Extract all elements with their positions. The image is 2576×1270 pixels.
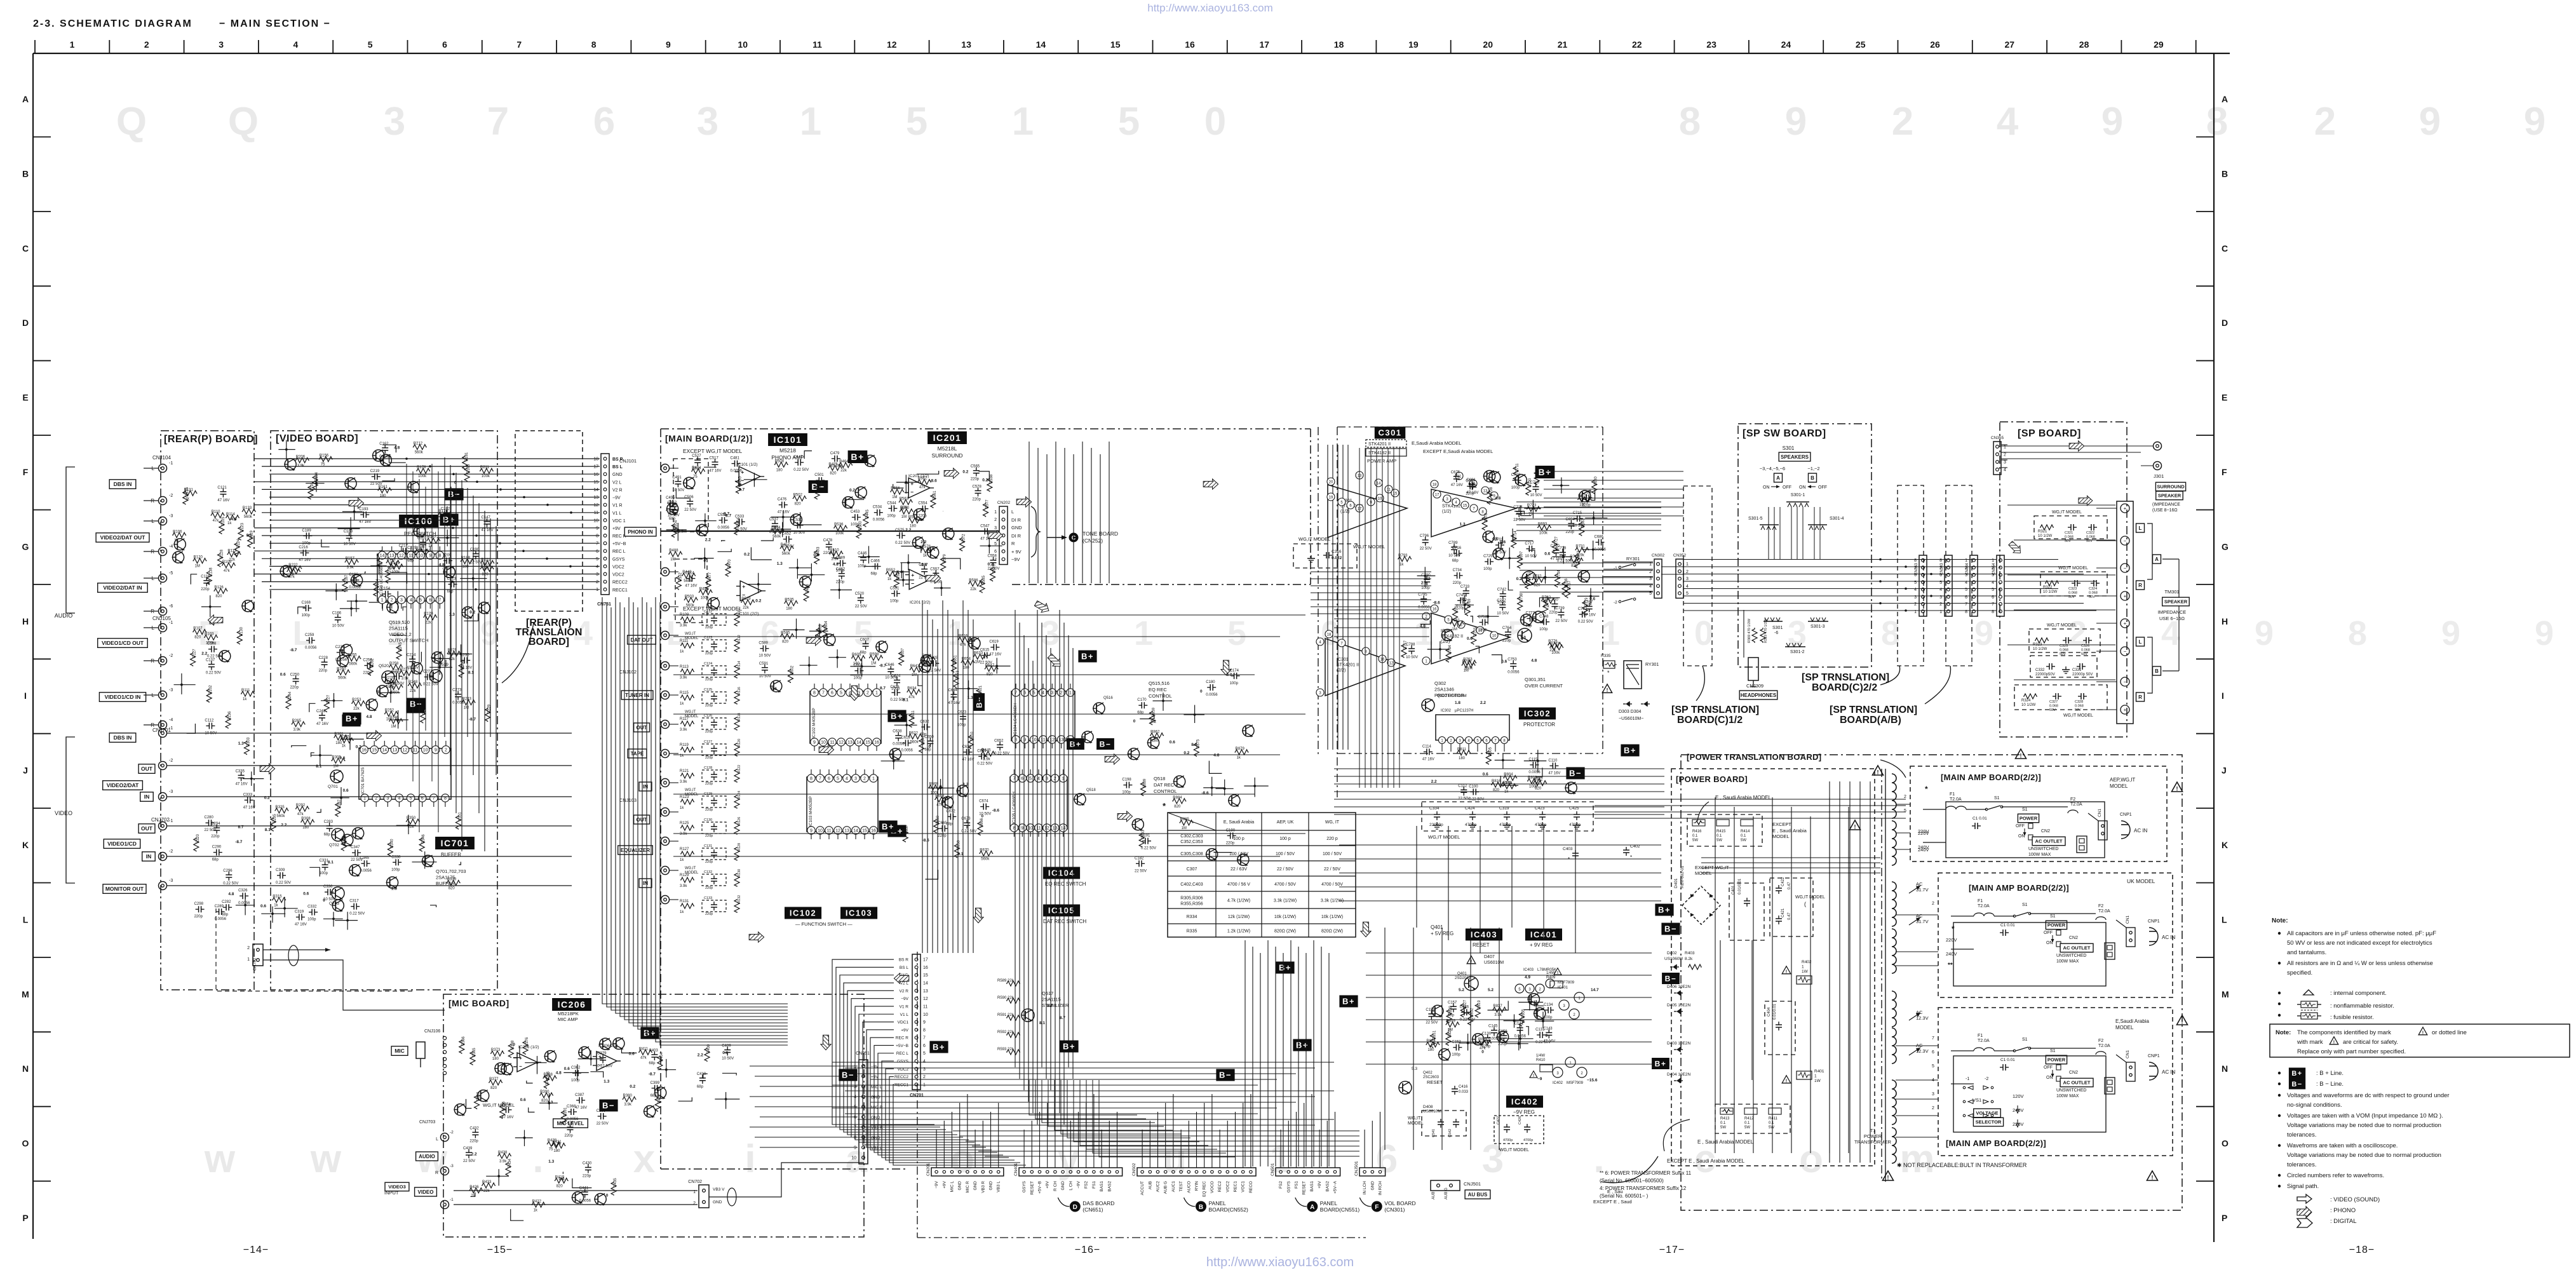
wire <box>445 660 447 666</box>
B- label eq rotated <box>973 693 985 711</box>
svg-text:4: 4 <box>1042 691 1044 696</box>
svg-text:17: 17 <box>593 465 598 469</box>
svg-text:IC103: IC103 <box>846 909 872 918</box>
B+ label protector <box>1621 745 1639 757</box>
svg-text:RECC2: RECC2 <box>612 581 628 585</box>
svg-text:C174: C174 <box>1230 669 1239 673</box>
diode D405 10E2N <box>1676 1009 1680 1014</box>
svg-text:1.2k (1/2W): 1.2k (1/2W) <box>1227 929 1250 934</box>
svg-text:12: 12 <box>593 503 598 508</box>
wire <box>1521 505 1532 515</box>
ground cap bank power amp <box>1422 802 1593 831</box>
svg-text:R252: R252 <box>385 709 394 713</box>
svg-text:C331: C331 <box>2072 668 2082 672</box>
svg-text:VIDEO2/DAT OUT: VIDEO2/DAT OUT <box>100 534 145 541</box>
svg-text:R837: R837 <box>1493 1004 1502 1008</box>
svg-text:18: 18 <box>1433 483 1437 487</box>
svg-text:R428: R428 <box>548 1139 557 1143</box>
transistor Q555 <box>387 877 398 888</box>
resistor R762 <box>1541 598 1555 604</box>
connector CN201 <box>931 1168 1004 1176</box>
resistor R401 <box>655 1098 660 1112</box>
svg-text:−9V: −9V <box>1011 557 1020 562</box>
capacitor C234 <box>412 656 413 659</box>
svg-text:220p: 220p <box>938 834 947 838</box>
mid wires to amp <box>1311 571 1431 572</box>
junction <box>349 527 352 530</box>
resistor R641 <box>919 739 924 753</box>
svg-text:24: 24 <box>1781 39 1791 50</box>
svg-text:7: 7 <box>994 558 997 562</box>
svg-text:R666: R666 <box>980 818 984 827</box>
svg-text:V2 L: V2 L <box>900 982 909 986</box>
svg-text:10: 10 <box>923 1013 928 1017</box>
svg-text:R350: R350 <box>407 816 416 820</box>
svg-text:100k: 100k <box>386 686 395 689</box>
transistor Q579 <box>1243 725 1254 736</box>
svg-text:-4: -4 <box>169 544 173 549</box>
svg-text:22 50V: 22 50V <box>597 1122 609 1126</box>
junction <box>905 481 907 483</box>
svg-text:!: ! <box>1607 687 1608 693</box>
svg-text:+: + <box>2124 593 2127 599</box>
svg-text:C302,C303: C302,C303 <box>1180 834 1203 839</box>
svg-text:R586: R586 <box>969 579 978 583</box>
svg-text:REC L: REC L <box>612 550 626 554</box>
capacitor C399 <box>652 1088 655 1089</box>
transistor Q544 <box>345 478 356 489</box>
svg-text:C273: C273 <box>452 689 462 692</box>
capacitor C115 <box>1530 764 1533 766</box>
svg-text:CONTROL: CONTROL <box>1149 693 1172 699</box>
svg-text:R127: R127 <box>680 848 689 851</box>
svg-text:100k: 100k <box>701 596 710 600</box>
svg-text:100 / 50V: 100 / 50V <box>1276 852 1295 856</box>
svg-text:C145: C145 <box>1488 1025 1498 1029</box>
resistor R839 <box>1446 1010 1452 1023</box>
svg-text:R426: R426 <box>469 1186 479 1189</box>
svg-text:VIDEO3: VIDEO3 <box>388 1184 406 1190</box>
resistor R398 <box>508 1044 513 1058</box>
svg-text:R129: R129 <box>680 874 689 877</box>
svg-text:y: y <box>1058 1137 1080 1181</box>
svg-text:R563: R563 <box>900 497 909 501</box>
capacitor C162 <box>384 445 386 448</box>
svg-text:BOARD(C)2/2: BOARD(C)2/2 <box>1812 682 1877 693</box>
svg-text:1.3: 1.3 <box>777 562 783 566</box>
svg-text:R438: R438 <box>498 1151 508 1154</box>
svg-text:C158: C158 <box>1426 1008 1435 1012</box>
svg-text:8.1: 8.1 <box>328 860 334 865</box>
Q520 transistor <box>429 670 442 682</box>
capacitor C219 <box>372 476 375 477</box>
B+ label eq2 <box>1067 738 1084 750</box>
svg-text:22 50V: 22 50V <box>1458 797 1470 801</box>
wire <box>864 565 877 566</box>
svg-text:5: 5 <box>368 39 373 50</box>
upper main vertical bundle <box>1028 442 1030 583</box>
svg-text:8.7: 8.7 <box>1047 1004 1053 1008</box>
junction <box>315 482 318 485</box>
svg-text:C352,C353: C352,C353 <box>1180 840 1203 844</box>
resistor R738 <box>1518 597 1523 611</box>
svg-text:GND: GND <box>1370 1181 1375 1191</box>
rca jack DBS IN L <box>159 464 167 473</box>
transistor Q572 <box>842 497 854 508</box>
rca jack video -1 <box>159 729 167 738</box>
wire <box>722 1073 736 1075</box>
svg-text:0.0056: 0.0056 <box>452 701 464 705</box>
svg-text:8.1: 8.1 <box>246 534 252 538</box>
transistor Q594 <box>1206 849 1218 860</box>
B+ label IC103 <box>887 825 906 837</box>
capacitor C506 <box>689 498 691 501</box>
connector CN501 <box>1276 1168 1340 1176</box>
svg-text:CN201: CN201 <box>926 1163 931 1176</box>
resistor ladder row 1 <box>680 643 694 648</box>
resistor R373 <box>490 1051 504 1056</box>
svg-text:18: 18 <box>593 457 598 462</box>
svg-text:A: A <box>2222 94 2228 104</box>
svg-text:MIC R: MIC R <box>966 1181 970 1193</box>
transistor Q544 <box>353 828 364 839</box>
capacitor C296 <box>228 872 229 875</box>
svg-text:28: 28 <box>2079 39 2089 50</box>
svg-text:+9V: +9V <box>942 1180 947 1188</box>
capacitor C217 <box>400 550 403 551</box>
svg-text:C565: C565 <box>971 465 980 469</box>
svg-text:C544: C544 <box>887 501 896 505</box>
svg-text:100p: 100p <box>1230 682 1239 686</box>
svg-text:V1 L: V1 L <box>900 1013 909 1017</box>
resistor R485 <box>736 480 741 494</box>
resistor R135 <box>183 490 188 504</box>
svg-text:8: 8 <box>438 554 441 558</box>
diode D404 10E2N <box>1676 1078 1680 1083</box>
svg-text:WG,IT MODEL: WG,IT MODEL <box>2047 623 2077 628</box>
svg-text:http://www.xiaoyu163.com: http://www.xiaoyu163.com <box>1147 2 1272 14</box>
svg-text:100k: 100k <box>418 475 427 478</box>
svg-text:(: ( <box>1804 901 1806 907</box>
svg-text:0.2: 0.2 <box>744 553 750 557</box>
svg-text:R723: R723 <box>1527 504 1537 508</box>
svg-text:47 16V: 47 16V <box>575 1106 587 1110</box>
svg-text:100 p: 100 p <box>1233 837 1244 841</box>
svg-text:50V: 50V <box>2049 708 2056 712</box>
svg-text:0.0056: 0.0056 <box>1488 1037 1500 1041</box>
junction <box>1589 595 1592 598</box>
svg-text:D403 10E2N: D403 10E2N <box>1667 1041 1691 1046</box>
svg-text:0.6: 0.6 <box>559 1177 565 1181</box>
transformer winding <box>1892 1080 1896 1125</box>
svg-text:CN353: CN353 <box>1915 563 1919 575</box>
svg-text:RYIN: RYIN <box>1195 1181 1199 1191</box>
svg-text:T2.0A: T2.0A <box>2070 802 2082 807</box>
resistor R253 <box>351 701 365 706</box>
resistor R422 <box>532 1202 546 1207</box>
board MAIN BOARD notch <box>1012 584 1311 585</box>
junction <box>424 861 426 863</box>
svg-text:3: 3 <box>219 39 224 50</box>
svg-text:0.6: 0.6 <box>1544 552 1550 557</box>
svg-text:1k: 1k <box>1504 790 1509 794</box>
capacitor C446 <box>863 555 864 558</box>
capacitor C198 <box>1123 785 1126 786</box>
capacitor C190 <box>475 551 476 554</box>
svg-text:+: + <box>910 480 914 487</box>
junction <box>725 1098 727 1100</box>
svg-text:− MAIN SECTION −: − MAIN SECTION − <box>219 18 331 29</box>
svg-text:R411: R411 <box>639 1047 649 1051</box>
svg-text:C632: C632 <box>920 720 929 724</box>
svg-text:47 16V: 47 16V <box>1466 491 1478 495</box>
wire <box>718 549 732 552</box>
svg-text:!: ! <box>1533 1074 1534 1078</box>
svg-text:(USE 8−16Ω: (USE 8−16Ω <box>2152 508 2178 513</box>
svg-text:IC201: IC201 <box>933 433 962 443</box>
svg-text:SPEAKER: SPEAKER <box>2158 493 2182 499</box>
resistor R414 <box>1741 820 1753 826</box>
svg-text:1M: 1M <box>1182 827 1187 830</box>
wire <box>421 652 422 662</box>
svg-text:-3: -3 <box>169 514 173 518</box>
svg-text:R: R <box>2138 694 2142 700</box>
wire <box>382 478 395 481</box>
svg-text:R590 22k: R590 22k <box>997 996 1015 1000</box>
transistor Q500 <box>684 477 695 489</box>
resistor R670 <box>979 851 993 856</box>
resistor R243 <box>461 700 475 705</box>
junction <box>1211 787 1213 789</box>
bus vertical stubs video board <box>444 457 445 737</box>
wire <box>800 512 822 525</box>
resistor R690 <box>1534 471 1539 485</box>
svg-text:VIDEO1/CD OUT: VIDEO1/CD OUT <box>102 640 144 646</box>
video input group bracket <box>66 737 75 883</box>
svg-text:R340: R340 <box>390 839 394 848</box>
svg-text:R131: R131 <box>680 900 689 903</box>
svg-text:4: 4 <box>1686 584 1689 589</box>
svg-text:IC701: IC701 <box>441 838 469 848</box>
resistor ladder row 3 <box>680 695 694 700</box>
resistor R803 <box>1527 778 1541 783</box>
svg-text:V2 R: V2 R <box>900 989 909 994</box>
svg-text:CNJ101: CNJ101 <box>619 458 637 464</box>
svg-text:9: 9 <box>2255 614 2274 652</box>
junction <box>1532 507 1535 510</box>
resistor R275 <box>447 651 461 656</box>
svg-text:R258: R258 <box>389 662 399 666</box>
svg-text:R124: R124 <box>738 791 741 799</box>
svg-text:INPUT: INPUT <box>384 1190 399 1196</box>
svg-text:DBS IN: DBS IN <box>114 734 132 741</box>
svg-text:Q302 US6010M: Q302 US6010M <box>1437 694 1467 698</box>
svg-text:MIC: MIC <box>394 1048 405 1054</box>
svg-text:6: 6 <box>831 691 833 696</box>
dashed board strip 3 <box>1946 485 1972 666</box>
svg-text:R243: R243 <box>462 698 472 701</box>
svg-text:47 16V: 47 16V <box>482 529 494 532</box>
resistor R346 <box>419 838 424 852</box>
svg-text:180: 180 <box>492 1057 499 1061</box>
svg-text:R410: R410 <box>1536 1058 1546 1062</box>
svg-text:US1060M: US1060M <box>1664 957 1683 961</box>
svg-text:3.9k: 3.9k <box>293 728 301 732</box>
svg-text:R731: R731 <box>1575 545 1585 549</box>
svg-text:-8.6: -8.6 <box>992 808 1000 813</box>
svg-text:R105: R105 <box>222 517 226 526</box>
left border <box>32 53 34 1239</box>
label DAT OUT <box>628 635 656 644</box>
svg-text:BOARD]: BOARD] <box>529 637 569 647</box>
resistor R879 <box>1235 750 1249 755</box>
signal arrow <box>806 635 821 645</box>
capacitor C110 <box>1549 765 1553 766</box>
svg-text:R434: R434 <box>508 1158 512 1168</box>
svg-text:C646: C646 <box>885 663 894 667</box>
svg-text:R552: R552 <box>886 569 896 572</box>
transistor Q572 <box>351 574 363 586</box>
winding arrows <box>1909 886 1920 893</box>
svg-text:C739: C739 <box>1555 607 1565 611</box>
leader curves sp translation <box>1696 666 1704 701</box>
svg-text:4.7k (1/2W): 4.7k (1/2W) <box>1227 899 1250 903</box>
svg-text:180: 180 <box>335 741 342 745</box>
svg-text:IC402: IC402 <box>1553 1081 1563 1085</box>
svg-text:[MAIN AMP BOARD(2/2)]: [MAIN AMP BOARD(2/2)] <box>1969 883 2069 893</box>
capacitor C190 <box>1227 835 1231 836</box>
IC102 IC103 chip labels <box>785 907 821 919</box>
svg-text:R658: R658 <box>957 840 961 849</box>
svg-text:(1/2): (1/2) <box>1442 510 1451 514</box>
svg-text:4.8: 4.8 <box>228 892 234 896</box>
wire <box>845 499 864 506</box>
svg-text:2SD2012: 2SD2012 <box>1455 976 1471 980</box>
resistor R404 <box>657 1056 663 1070</box>
svg-text:D406 10E2N: D406 10E2N <box>1667 985 1691 989</box>
note line <box>2278 1114 2281 1117</box>
svg-text:R693: R693 <box>1538 522 1548 526</box>
svg-text:68p: 68p <box>212 858 219 862</box>
svg-text:1/4W: 1/4W <box>1546 971 1555 975</box>
svg-text:R110: R110 <box>738 609 741 617</box>
capacitor C213 <box>448 584 452 585</box>
speaker terminal strip <box>2117 501 2133 724</box>
svg-text:M5218: M5218 <box>779 447 796 454</box>
svg-text:CN202: CN202 <box>997 501 1011 505</box>
svg-text:(1/2): (1/2) <box>1340 510 1349 514</box>
svg-text:4.8: 4.8 <box>367 715 372 719</box>
wire <box>1514 511 1525 515</box>
svg-text:C1 0.01: C1 0.01 <box>1972 816 1987 821</box>
svg-text:CN352: CN352 <box>1673 553 1687 558</box>
svg-text:VOL BOARD: VOL BOARD <box>1384 1200 1415 1206</box>
svg-text:1M: 1M <box>871 662 876 666</box>
IC403 regulator circle pack <box>1515 984 1524 993</box>
svg-text:3.9k: 3.9k <box>499 1159 507 1163</box>
wire <box>511 1209 524 1220</box>
resistor R411 <box>638 1050 652 1055</box>
capacitor C280 <box>206 822 209 823</box>
junction <box>753 478 756 481</box>
resistor R380 <box>623 1097 637 1102</box>
capacitor C745 <box>1457 600 1460 601</box>
transistor Q576 <box>1128 748 1140 760</box>
svg-text:5: 5 <box>837 777 839 781</box>
svg-text:N: N <box>2222 1064 2228 1074</box>
resistor R683 <box>1579 522 1584 536</box>
svg-text:2: 2 <box>1892 100 1913 144</box>
svg-text:S301-1: S301-1 <box>1791 493 1805 497</box>
svg-text:R123: R123 <box>241 522 245 532</box>
capacitor C537 <box>774 520 776 524</box>
svg-text:12: 12 <box>399 554 404 558</box>
svg-text:R253: R253 <box>352 698 361 702</box>
resistor R457 <box>780 546 794 551</box>
junction <box>1518 1043 1520 1045</box>
resistor R651 <box>952 659 957 673</box>
svg-text:CN701: CN701 <box>910 1093 924 1098</box>
svg-text:AUC1: AUC1 <box>1171 1181 1176 1192</box>
svg-text:68p: 68p <box>649 1062 656 1065</box>
signal arrow <box>1221 660 1231 675</box>
svg-text:R593 22k: R593 22k <box>997 1048 1015 1051</box>
svg-text:C236: C236 <box>335 645 345 649</box>
svg-text:CNJ501: CNJ501 <box>1354 1161 1359 1176</box>
svg-text:820: 820 <box>448 887 455 891</box>
svg-text:C190: C190 <box>1226 828 1236 832</box>
svg-text:17: 17 <box>1260 39 1270 50</box>
junction <box>346 919 349 922</box>
svg-text:−9: −9 <box>1537 1077 1542 1081</box>
resistor R712 <box>1569 558 1583 563</box>
warning triangle relay <box>1602 684 1612 693</box>
resistor R206 <box>295 457 309 463</box>
svg-text:IN RCH: IN RCH <box>1379 1181 1383 1196</box>
transistor Q585 <box>1148 737 1159 748</box>
svg-text:DAS BOARD: DAS BOARD <box>1082 1200 1114 1206</box>
wire <box>978 471 989 481</box>
svg-text:UK MODEL: UK MODEL <box>2127 878 2155 884</box>
resistor R165 <box>464 468 469 482</box>
svg-text:22 50V: 22 50V <box>442 567 454 571</box>
svg-text:23: 23 <box>1706 39 1716 50</box>
svg-text:-6: -6 <box>169 604 173 609</box>
svg-text:1k: 1k <box>386 718 391 722</box>
svg-text:[MIC BOARD]: [MIC BOARD] <box>448 998 509 1008</box>
svg-text:FS2: FS2 <box>1084 1181 1089 1189</box>
resistor R388 <box>543 1076 557 1081</box>
svg-text:22 50V: 22 50V <box>855 605 867 609</box>
svg-text:R504: R504 <box>674 520 678 529</box>
svg-text:+9V: +9V <box>901 1028 908 1032</box>
svg-text:R637: R637 <box>901 648 905 658</box>
capacitor C156 <box>1503 1032 1504 1036</box>
board VIDEO BOARD outline <box>271 431 497 990</box>
svg-text:4700 / 50V: 4700 / 50V <box>1321 882 1343 887</box>
svg-text:DAT REC SWITCH: DAT REC SWITCH <box>1043 919 1086 924</box>
resistor R586 <box>968 581 982 586</box>
svg-text:0.068: 0.068 <box>2060 649 2068 652</box>
svg-text:WG,IT MODEL: WG,IT MODEL <box>2063 713 2093 718</box>
connector CN303 <box>1945 555 1952 616</box>
resistor R224 <box>287 569 300 574</box>
capacitor C112 <box>1463 787 1464 790</box>
capacitor C131 <box>1537 1034 1540 1036</box>
input label VIDEO2/DAT <box>103 781 143 790</box>
junction <box>1535 1009 1537 1011</box>
svg-text:9: 9 <box>2441 614 2460 652</box>
